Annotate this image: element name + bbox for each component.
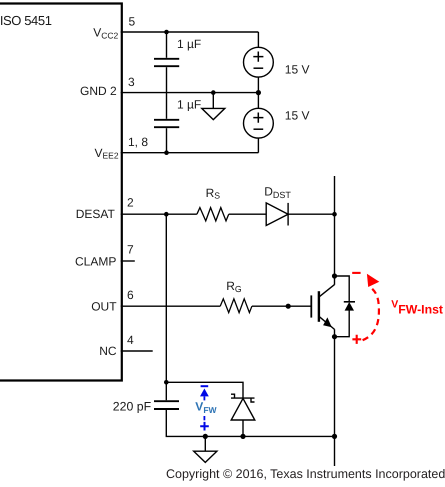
IGBT Q1 gate bar bbox=[310, 295, 312, 317]
diode DDST bbox=[266, 203, 288, 226]
capacitor C1 plates bbox=[154, 59, 179, 66]
capacitor C1 1uF lead top bbox=[166, 32, 168, 58]
wire RG to gate bbox=[252, 305, 311, 307]
schottky diode D2 cathode bar with hooks bbox=[231, 394, 255, 402]
svg-text:RS: RS bbox=[206, 186, 221, 201]
voltage source V1 15V bbox=[244, 47, 274, 77]
junction dot DESAT branch bbox=[164, 212, 169, 217]
junction dot collector node bbox=[332, 273, 337, 278]
blue arrow stem bbox=[203, 396, 205, 400]
svg-text:VFW-Inst: VFW-Inst bbox=[391, 299, 443, 317]
blue arrow VFW bbox=[200, 389, 209, 397]
bottom network top wire bbox=[166, 382, 243, 398]
svg-text:DDST: DDST bbox=[264, 185, 291, 200]
V2 minus sign bbox=[254, 128, 264, 130]
svg-text:VFW: VFW bbox=[195, 399, 217, 415]
blue plus sign bbox=[200, 422, 209, 431]
wire RS to DDST bbox=[229, 213, 267, 215]
svg-text:7: 7 bbox=[127, 243, 134, 257]
voltage source V2 15V bbox=[244, 108, 274, 138]
junction dot bottom network top bbox=[164, 380, 169, 385]
IGBT Q1 body bar bbox=[318, 291, 320, 322]
svg-text:4: 4 bbox=[127, 333, 134, 347]
wire VEE2 pin 1,8 bbox=[121, 152, 259, 154]
wire NC stub pin 4 bbox=[121, 350, 153, 352]
svg-text:220 pF: 220 pF bbox=[113, 400, 152, 414]
junction dot C1 top on VCC2 bbox=[164, 30, 169, 35]
red minus sign bbox=[352, 272, 360, 274]
wire DDST to collector rail bbox=[288, 213, 334, 215]
svg-text:Copyright © 2016, Texas Instru: Copyright © 2016, Texas Instruments Inco… bbox=[166, 467, 445, 481]
freewheel diode D3 cathode bar bbox=[344, 301, 355, 303]
blue dashed segment bbox=[203, 416, 205, 420]
V1 minus sign bbox=[254, 67, 264, 69]
capacitor C1 lead bottom / wire through GND2 to C2 bbox=[166, 67, 168, 119]
capacitor C3 220pF plates bbox=[154, 401, 179, 409]
junction dot D2 bottom bbox=[240, 434, 245, 439]
schottky diode D2 triangle bbox=[231, 398, 255, 420]
svg-text:RG: RG bbox=[226, 279, 242, 294]
wire DESAT pin 2 bbox=[121, 213, 197, 215]
collector rail bbox=[334, 176, 336, 285]
red plus sign bbox=[352, 335, 361, 344]
blue minus bar bbox=[201, 385, 209, 387]
wire CLAMP stub pin 7 bbox=[121, 260, 135, 262]
svg-text:1 µF: 1 µF bbox=[177, 97, 201, 111]
wire V1 bottom to GND2 node bbox=[257, 77, 259, 108]
IGBT Q1 emitter diagonal bbox=[320, 317, 335, 330]
svg-text:15 V: 15 V bbox=[285, 62, 310, 76]
capacitor C2 lead bottom bbox=[166, 128, 168, 153]
svg-text:5: 5 bbox=[129, 15, 136, 29]
resistor RS bbox=[197, 208, 229, 221]
svg-text:OUT: OUT bbox=[91, 299, 117, 313]
junction dot sources mid on GND2 bbox=[256, 90, 261, 95]
DESAT branch vertical to bottom network bbox=[165, 214, 167, 400]
junction dot DESAT on rail bbox=[332, 212, 337, 217]
svg-text:1 µF: 1 µF bbox=[177, 37, 201, 51]
ground symbol bottom bbox=[204, 436, 206, 451]
wire source branch vertical top bbox=[257, 32, 259, 48]
V2 plus sign bbox=[253, 113, 263, 123]
red dashed arc VFW-Inst bbox=[363, 289, 379, 340]
svg-text:6: 6 bbox=[127, 288, 134, 302]
IGBT Q1 collector diagonal bbox=[320, 285, 335, 297]
svg-text:1, 8: 1, 8 bbox=[128, 135, 148, 149]
red arrowhead bbox=[367, 274, 379, 287]
svg-text:15 V: 15 V bbox=[285, 108, 310, 122]
wire V2 bottom to VEE2 bbox=[257, 138, 259, 153]
emitter wire down bbox=[334, 329, 336, 466]
svg-text:CLAMP: CLAMP bbox=[75, 254, 116, 268]
wire VCC2 pin 5 bbox=[121, 31, 259, 33]
wire OUT pin 6 bbox=[121, 305, 221, 307]
schottky diode D2 lead bbox=[242, 420, 244, 436]
svg-text:ISO 5451: ISO 5451 bbox=[0, 13, 52, 28]
capacitor C2 plates bbox=[154, 120, 179, 127]
IGBT Q1 emitter arrow bbox=[323, 317, 332, 327]
V1 plus sign bbox=[253, 52, 263, 62]
wire GND2 pin 3 bbox=[121, 92, 259, 94]
ground symbol GND2 bbox=[212, 93, 214, 109]
svg-text:NC: NC bbox=[99, 344, 117, 358]
junction dot bottom wire right bbox=[332, 434, 337, 439]
freewheel diode D3 bottom wire bbox=[335, 311, 350, 337]
IC U1 ISO 5451 box bbox=[0, 4, 122, 381]
junction dot ground on GND2 bbox=[211, 90, 216, 95]
resistor RG bbox=[220, 299, 252, 313]
freewheel diode D3 triangle bbox=[345, 302, 354, 311]
svg-text:3: 3 bbox=[128, 75, 135, 89]
junction dot emitter node bbox=[332, 334, 337, 339]
svg-text:GND 2: GND 2 bbox=[80, 84, 117, 98]
junction dot ground bottom bbox=[203, 434, 208, 439]
freewheel diode D3 top wire bbox=[335, 276, 350, 302]
junction dot on OUT wire bbox=[286, 304, 291, 309]
svg-text:2: 2 bbox=[127, 196, 134, 210]
capacitor C3 lead bottom bbox=[166, 410, 334, 436]
junction dot C2 bottom on VEE2 bbox=[164, 150, 169, 155]
svg-text:DESAT: DESAT bbox=[76, 207, 116, 221]
